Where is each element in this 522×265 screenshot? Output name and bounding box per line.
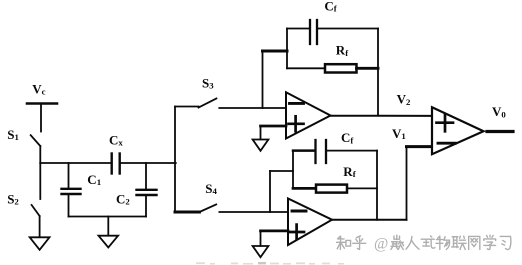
svg-text:@: @: [374, 235, 388, 252]
